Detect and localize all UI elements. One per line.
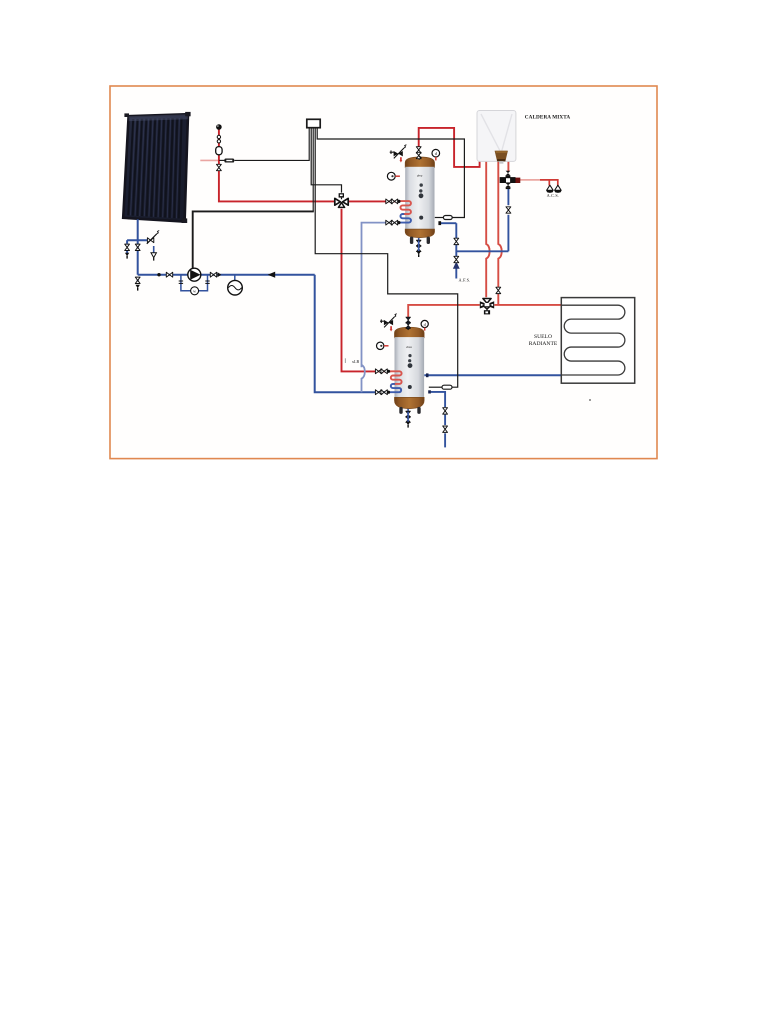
wire solar return riser [315, 275, 390, 393]
tank T1 upper accumulator [405, 155, 434, 244]
safety group lower tank [380, 314, 397, 332]
collector line valve [135, 244, 140, 250]
svg-text:dıva: dıva [417, 174, 423, 178]
upper tank riser valves [416, 147, 421, 159]
wire heating flow main [408, 305, 561, 318]
wire sensor cable lower tank [315, 128, 458, 388]
svg-text:CALDERA MIXTA: CALDERA MIXTA [525, 114, 571, 120]
wire solar hot riser [219, 130, 335, 202]
wire mixer cold feed [456, 188, 508, 251]
label suelo radiante [529, 334, 558, 347]
thermometer lower tank side [377, 342, 389, 349]
4-way mixing valve V2 [480, 299, 494, 315]
svg-text:RADIANTE: RADIANTE [529, 341, 558, 347]
safety relief valve collector [147, 231, 159, 261]
boiler CALDERA MIXTA [477, 111, 516, 164]
upper tank sensor capsule [443, 216, 452, 220]
collector sensor pocket [224, 159, 234, 163]
riser shutoff valve [217, 164, 222, 170]
collector line lower drain [135, 277, 140, 291]
lower tank cold stub square [428, 390, 431, 393]
svg-text:A.F.S.: A.F.S. [459, 278, 471, 283]
air vent ball on riser [216, 124, 222, 130]
coil upper tank solar exchanger [399, 201, 411, 223]
controller unit [307, 119, 320, 127]
frame border [110, 86, 657, 459]
coil lower tank solar exchanger [390, 371, 402, 392]
mixer cold valve [506, 207, 511, 213]
lower tank riser valves [406, 317, 411, 328]
lower tank drain [406, 411, 411, 427]
lower tank SUELO stub [426, 373, 429, 377]
tank T2 lower accumulator [395, 325, 425, 414]
valve group upper coil outlet [386, 220, 401, 225]
safety group upper tank [390, 145, 407, 163]
wire AFS riser [441, 223, 456, 278]
valve group upper coil inlet [386, 199, 401, 204]
valve group lower coil inlet [375, 369, 390, 374]
thermometer upper tank top [432, 149, 440, 160]
solar collector [123, 112, 190, 223]
stray dot mark [589, 399, 591, 401]
wire upper tank drain [418, 238, 420, 241]
wire solar hot to upper coil [348, 200, 399, 202]
svg-text:xLB: xLB [352, 359, 359, 364]
wire sensor cable collector [219, 128, 309, 161]
valve pump suction [157, 272, 172, 277]
radiant floor panel SUELO RADIANTE [561, 298, 634, 384]
svg-text:w: w [193, 289, 196, 294]
wire pump cable [312, 128, 314, 212]
wire boiler DHW to mixer [507, 161, 509, 172]
valve pump discharge [210, 272, 221, 277]
lower tank cold drop valves [443, 408, 448, 433]
thermometer upper tank side [387, 172, 400, 180]
3-way valve V1 [335, 193, 348, 207]
riser air separator capsule [216, 147, 222, 155]
wire boiler heating flow [486, 161, 489, 297]
collector drain branch valve [125, 244, 130, 259]
wire pump line [138, 274, 315, 276]
wire lower tank top stub [407, 328, 409, 331]
upper tank drain [416, 240, 421, 257]
svg-text:SUELO: SUELO [534, 334, 552, 340]
wire lower tank drain [407, 409, 409, 412]
wire lower tank cold drop [431, 392, 445, 448]
label ACS [547, 193, 559, 198]
riser isolation rings [217, 135, 220, 143]
lower tank sensor capsule [442, 385, 452, 389]
wire upper tank DHW out [419, 128, 480, 167]
wire sensor cable upper tank [317, 128, 464, 218]
wire AFS arrow [453, 261, 460, 268]
thermometer lower tank top [421, 320, 428, 330]
valve group lower coil outlet [375, 390, 390, 395]
upper tank DHW stub square [438, 221, 441, 225]
wire radiant floor return [424, 374, 561, 376]
AFS isolation valves [454, 238, 459, 262]
bypass gauge [191, 287, 199, 295]
flow arrow pump line [268, 272, 276, 278]
label xLB mark [345, 358, 359, 364]
svg-text:A.C.S.: A.C.S. [547, 193, 559, 198]
wire solar hot down branch [342, 209, 391, 372]
svg-text:dıva: dıva [406, 345, 412, 349]
wire boiler heating return [498, 161, 501, 305]
wire collector cold drop [127, 219, 148, 283]
wire pump bypass [181, 275, 208, 291]
wire sensor cable valve actuator [311, 128, 341, 193]
wire safety relief discharge [153, 246, 155, 253]
bypass valve ticks [179, 281, 210, 283]
pump P1 solar [188, 268, 201, 281]
label AFS [459, 278, 471, 283]
wire collector hot stub [200, 159, 219, 161]
wire upper coil return [362, 223, 400, 393]
wire mixer outlet to taps [519, 180, 557, 186]
flow meter [228, 275, 243, 295]
thermostatic mixer [500, 171, 521, 189]
boiler return valve [496, 287, 501, 293]
tap faucets ACS [546, 185, 561, 193]
label caldera mixta [525, 114, 571, 120]
